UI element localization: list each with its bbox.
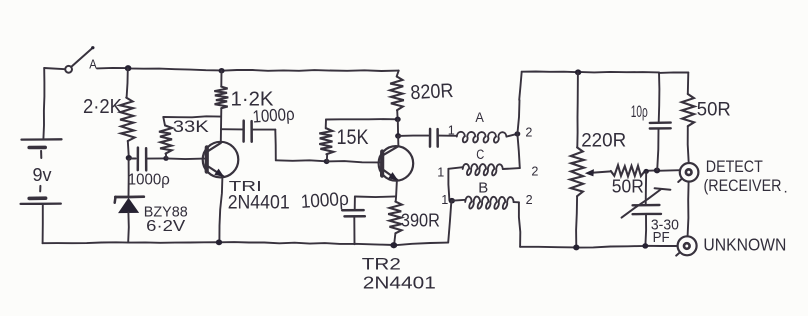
resistor R5 820R <box>397 71 399 77</box>
node: emitter ground junction <box>216 239 222 245</box>
node: rail junction for 2.2K <box>125 65 132 71</box>
svg-text:1000ρ: 1000ρ <box>128 172 170 189</box>
svg-text:2N4401: 2N4401 <box>228 193 290 214</box>
wire: battery top lead to switch <box>44 68 65 69</box>
capacitor C2 1000p coupling <box>221 128 242 130</box>
wire: coupling elbow to TR2 base <box>274 130 277 161</box>
wire: junction down to ground rail <box>448 201 451 243</box>
svg-text:6·2V: 6·2V <box>146 218 185 235</box>
svg-text:A: A <box>475 110 484 125</box>
switch S1 (open) with terminal circle <box>65 66 72 73</box>
wire: right tank column to top rail <box>517 72 521 134</box>
resistor R1 2.2K <box>120 98 135 141</box>
svg-text:9v: 9v <box>33 165 52 185</box>
wire: TR2 collector column <box>397 119 399 135</box>
svg-text:2: 2 <box>526 192 533 207</box>
node: A/C junction <box>515 131 521 136</box>
svg-text:2: 2 <box>525 125 532 140</box>
svg-text:UNKNOWN: UNKNOWN <box>703 235 786 255</box>
wire: coil C left elbow <box>448 167 462 169</box>
wire: battery bottom lead <box>42 204 44 243</box>
trimmer C6 3-30pF <box>645 172 648 205</box>
svg-text:C: C <box>476 147 484 162</box>
node: 15K base junction <box>324 159 330 164</box>
svg-text:2·2K: 2·2K <box>83 96 123 118</box>
wire: 2.2K top lead <box>127 68 128 97</box>
svg-text:2N4401: 2N4401 <box>363 272 436 292</box>
battery B1 9v <box>22 138 62 141</box>
wire: right section bottom rail <box>520 246 678 248</box>
svg-text:A: A <box>89 57 97 72</box>
svg-text:1: 1 <box>448 123 455 138</box>
resistor R8 50R output <box>687 73 690 95</box>
node: 820R / 15K / collector junction <box>395 117 401 123</box>
wire: coil B right elbow down <box>514 201 519 203</box>
zener D1 BZY88 <box>128 159 130 196</box>
svg-text:B: B <box>478 179 488 196</box>
svg-text:.: . <box>784 180 788 197</box>
resistor R2 33K <box>165 154 167 158</box>
wire: coil A to node 2 <box>507 134 517 137</box>
resistor R3 1.2K <box>220 71 222 87</box>
capacitor C5 10p <box>658 72 661 122</box>
svg-text:15K: 15K <box>337 126 369 149</box>
svg-text:1000ρ: 1000ρ <box>300 189 350 213</box>
connector J1 DETECT (RECEIVER) <box>680 163 699 182</box>
node: 220R ground junction <box>573 244 579 250</box>
wire: right section top rail <box>522 72 689 73</box>
svg-text:PF: PF <box>653 229 670 246</box>
node: 390R ground junction <box>390 242 397 248</box>
potentiometer VR1 220R <box>576 72 579 147</box>
svg-text:(RECEIVER: (RECEIVER <box>704 176 782 195</box>
resistor R6 390R <box>395 196 397 201</box>
transistor Q2 TR2 2N4401 <box>379 146 414 181</box>
node: 10p junction <box>654 167 660 173</box>
svg-text:50R: 50R <box>612 177 644 197</box>
node: rail junction for 1.2K <box>219 68 225 74</box>
node: trimmer branch junction <box>644 169 649 174</box>
svg-text:10ρ: 10ρ <box>631 102 648 121</box>
wire: 33K top link to collector column <box>163 116 220 117</box>
svg-text:1: 1 <box>437 164 444 179</box>
wire: 2.2K bottom lead <box>128 141 129 157</box>
inductor L-B winding <box>465 196 513 208</box>
node: trimmer ground junction <box>642 243 648 249</box>
svg-text:33K: 33K <box>173 117 210 136</box>
inductor L-C winding <box>463 164 503 175</box>
wire: A/C junction down to coil C <box>517 134 519 168</box>
wire: main bottom rail <box>43 242 449 245</box>
svg-text:TR2: TR2 <box>362 256 401 274</box>
wiper arrow of 220R <box>594 171 611 172</box>
node: base network junction <box>163 156 168 161</box>
svg-text:2: 2 <box>531 163 538 178</box>
wire: TR1 emitter to ground rail <box>219 177 222 242</box>
wire: coil C to node 2 <box>503 167 520 170</box>
svg-text:DETECT: DETECT <box>706 157 763 176</box>
wire: collector column into TR1 <box>220 129 222 143</box>
wire: B junction to coil B <box>452 199 466 202</box>
wire: J1 to J2 link <box>688 182 689 237</box>
capacitor C1 1000p <box>130 158 136 160</box>
wire: TR2 emitter lead <box>395 180 398 196</box>
wire: 15K top link <box>326 118 397 120</box>
wire: left column down to battery <box>43 68 44 139</box>
wire: top-left supply rail <box>97 68 399 71</box>
svg-text:390R: 390R <box>401 211 440 231</box>
node: collector output junction <box>395 133 401 139</box>
svg-text:1000ρ: 1000ρ <box>252 104 295 127</box>
resistor R4 15K <box>326 154 328 161</box>
capacitor C4 output coupling <box>398 135 428 137</box>
capacitor C3 1000p emitter bypass <box>355 195 396 198</box>
svg-text:220R: 220R <box>581 131 626 152</box>
svg-text:1: 1 <box>441 192 448 207</box>
node: C/B pin1 junction <box>449 198 455 204</box>
svg-text:820R: 820R <box>410 80 454 104</box>
connector J2 UNKNOWN <box>678 236 697 255</box>
node: zener / cap junction <box>126 155 132 161</box>
svg-text:50R: 50R <box>697 99 731 120</box>
wire: TR1 base wire <box>166 157 204 160</box>
node: 220R rail junction <box>575 69 581 75</box>
transistor Q1 TR1 2N4401 <box>203 142 239 178</box>
inductor L-A winding <box>457 132 507 143</box>
rheostat R7 50R (wiper series) <box>611 165 645 176</box>
